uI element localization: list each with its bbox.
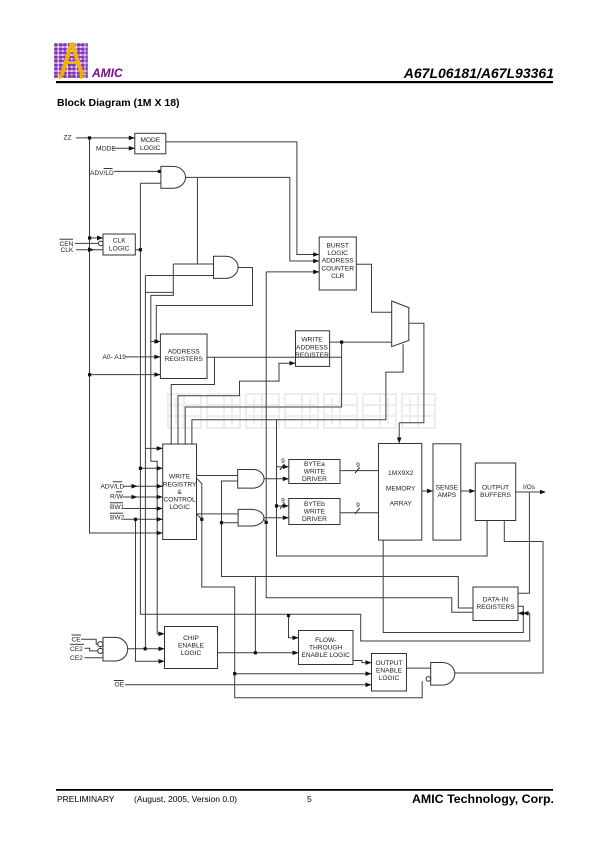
wire CE to G5 <box>81 639 98 644</box>
arrow into WRITE REGISTRY in1 <box>157 446 163 451</box>
wire branch from data line down to chip out line <box>254 577 256 653</box>
and-gate G3 bytea <box>238 470 264 489</box>
svg-text:PRELIMINARY: PRELIMINARY <box>57 794 115 804</box>
wire mux output to memory top <box>399 323 424 423</box>
wire G2 input1 horizontal <box>173 263 213 265</box>
box CLK LOGIC <box>103 234 135 255</box>
box MODE LOGIC <box>135 133 166 154</box>
junction clk wr2 <box>139 467 142 470</box>
svg-text:CE2: CE2 <box>70 646 83 653</box>
wire WRITE ADDRESS REGISTER input staircase <box>178 363 296 444</box>
svg-text:Block Diagram (1M X 18): Block Diagram (1M X 18) <box>57 97 180 109</box>
box 1MX9X2 MEMORY ARRAY <box>379 444 422 541</box>
arrow into BURST in1 <box>313 252 319 257</box>
wire A0-A19 to ADDRESS REGISTERS <box>126 356 160 358</box>
box OUTPUT ENABLE LOGIC <box>372 654 407 692</box>
svg-text:FLOW-THROUGHENABLE LOGIC: FLOW-THROUGHENABLE LOGIC <box>302 637 351 659</box>
arrow into CHIP ENABLE in2 <box>159 647 165 652</box>
arrow into FLOW-THROUGH in2 <box>293 651 299 656</box>
wire BYTEa output to memory <box>340 470 379 472</box>
arrow into ADDRESS REGISTERS in1 <box>154 339 160 344</box>
wire rail 145 branch WRITE REGISTRY input1 <box>145 447 162 449</box>
junction chip ft <box>254 651 257 654</box>
wire G2 output to BURST input3 <box>156 268 252 342</box>
wire G4 output to BYTEb input2 <box>264 517 289 519</box>
arrow into WRITE REGISTRY bw1 <box>157 506 163 511</box>
wire G5 output to CHIP ENABLE LOGIC <box>128 648 165 650</box>
svg-text:BURSTLOGICADDRESSCOUNTERCLR: BURSTLOGICADDRESSCOUNTERCLR <box>321 243 354 280</box>
arrow into CHIP ENABLE in3 <box>159 659 165 664</box>
input bubble G5 in1 <box>98 642 103 647</box>
wire ADV/LD to G1 <box>114 170 161 172</box>
arrow mid rw <box>132 495 138 500</box>
watermark <box>168 394 435 428</box>
box BURST LOGIC ADDRESS COUNTER CLR <box>319 237 356 290</box>
wire mux bottom to staircase <box>192 344 403 444</box>
wire vertical at 341.6 <box>185 342 341 444</box>
slash bytea out <box>355 467 360 473</box>
svg-text:CE: CE <box>72 637 82 644</box>
input bubble CEN <box>99 241 104 246</box>
footer rule <box>56 789 553 791</box>
junction ce out <box>144 647 147 650</box>
arrow into FLOW-THROUGH in1 <box>293 636 299 641</box>
wire ADDRESS REGISTERS output to mux input2 <box>207 356 342 358</box>
svg-text:BW2: BW2 <box>110 515 125 522</box>
arrow into MODE LOGIC mode <box>129 146 135 151</box>
box SENSE AMPS <box>433 444 461 540</box>
arrow into MODE LOGIC zz <box>129 136 135 141</box>
svg-text:5: 5 <box>307 794 312 804</box>
svg-text:A67L06181/A67L93361: A67L06181/A67L93361 <box>403 65 554 81</box>
wire IOs branch down to data-in <box>518 492 529 593</box>
arrow into BURST in2 <box>313 259 319 264</box>
junction bus byteb <box>275 504 278 507</box>
wire G4 input2 from vertical <box>222 522 239 524</box>
wire ADVLD to WRITE REGISTRY <box>124 485 163 487</box>
wire ZZ to MODE LOGIC <box>76 137 135 139</box>
wire G3 output to BYTEa input2 <box>264 478 289 480</box>
arrow IOs <box>540 490 546 495</box>
junction outen2 <box>233 672 236 675</box>
svg-text:MODELOGIC: MODELOGIC <box>140 137 161 152</box>
arrow into WRITE REGISTRY zz <box>157 531 163 536</box>
wire CLK rail to G1 input2 <box>140 182 161 184</box>
svg-text:BYTEaWRITEDRIVER: BYTEaWRITEDRIVER <box>302 461 327 483</box>
and-gate G1 ADV/LD <box>161 166 186 188</box>
svg-text:CLKLOGIC: CLKLOGIC <box>109 238 130 253</box>
wire ZZ vertical rail <box>90 138 163 533</box>
wire G4 output diagonal to vertical <box>263 519 266 523</box>
arrow into BURST in3 <box>313 270 319 275</box>
svg-text:I/Os: I/Os <box>523 484 536 491</box>
wire ZZ branch to CLK LOGIC top input <box>90 237 104 239</box>
svg-text:9: 9 <box>356 502 360 509</box>
wire to OUTPUT ENABLE input2 <box>235 673 372 675</box>
svg-text:OUTPUTBUFFERS: OUTPUTBUFFERS <box>480 485 511 500</box>
junction diag 202 <box>200 518 203 521</box>
svg-text:CLK: CLK <box>61 247 74 254</box>
junction addr in1 <box>155 340 158 343</box>
wire RW to WRITE REGISTRY <box>123 496 163 498</box>
arrow into OUTPUT ENABLE in2 <box>366 671 372 676</box>
junction zz top <box>88 136 91 139</box>
header rule <box>56 81 553 83</box>
wire BW2 branch down to chip enable <box>136 519 165 661</box>
arrow into WRITE REGISTRY advld <box>157 484 163 489</box>
and-gate G2 burst <box>214 256 239 278</box>
wire rail 145 vertical <box>144 276 146 650</box>
junction zz clk <box>88 236 91 239</box>
wire output buffers to IOs <box>516 491 542 493</box>
svg-text:ADV/LD: ADV/LD <box>90 170 114 177</box>
junction war out <box>340 341 343 344</box>
and-gate G6 output enable <box>431 663 455 686</box>
arrow into memory top <box>397 438 402 444</box>
arrow into DATA-IN right (double) <box>518 611 524 616</box>
slash byteb out <box>355 508 360 514</box>
svg-text:CE2: CE2 <box>70 655 83 662</box>
wire ADDR output branch to WRITE REGISTRY top a <box>171 357 214 444</box>
wire diagonal2 out2 to vertical <box>197 514 202 519</box>
box CHIP ENABLE LOGIC <box>165 627 218 669</box>
wire ZZ branch to ADDRESS REGISTERS input3 <box>90 374 161 376</box>
wire data bus vertical to byte drivers <box>277 420 488 556</box>
junction dot advld gate <box>158 170 161 173</box>
box FLOW-THROUGH ENABLE LOGIC <box>299 631 354 665</box>
slash bytea in <box>280 464 285 470</box>
wire BW1 to WRITE REGISTRY <box>124 508 163 510</box>
wire BYTEb output to memory <box>340 512 379 514</box>
box DATA-IN REGISTERS <box>473 587 518 621</box>
wire CE2a to G5 <box>85 648 98 651</box>
wire WRITE REGISTRY out1 to G3 <box>197 475 238 477</box>
wire CLK rail branch to WRITE REGISTRY input2 <box>140 467 162 469</box>
wire WRITE ADDRESS REGISTER output to mux input2 <box>330 341 392 343</box>
wire clk line branch to FLOW-THROUGH input1 <box>289 616 299 638</box>
mux trapezoid <box>392 301 409 347</box>
svg-text:(August, 2005, Version 0.0): (August, 2005, Version 0.0) <box>134 794 237 804</box>
wire CLK LOGIC output rail <box>135 183 140 250</box>
arrow into WRITE ADDRESS REGISTER <box>290 361 296 366</box>
svg-text:BW1: BW1 <box>110 504 125 511</box>
svg-text:1MX9X2MEMORYARRAY: 1MX9X2MEMORYARRAY <box>386 470 416 508</box>
arrow into CLK LOGIC top <box>97 236 103 241</box>
arrow into WRITE REGISTRY rw <box>157 495 163 500</box>
svg-text:9: 9 <box>281 458 285 465</box>
wire memory top entry <box>398 423 400 439</box>
wire BURST input3 from long vertical <box>266 271 319 273</box>
arrow mid advld <box>132 484 138 489</box>
arrow into ADDRESS REGISTERS in3 <box>154 372 160 377</box>
wire MODE to MODE LOGIC <box>113 147 135 149</box>
box WRITE REGISTRY & CONTROL LOGIC <box>163 444 197 540</box>
svg-text:WRITEREGISTRY&CONTROLLOGIC: WRITEREGISTRY&CONTROLLOGIC <box>163 474 197 511</box>
wire sense amps to output buffers <box>461 490 476 492</box>
nand-gate G5 chip enable input <box>103 637 128 661</box>
arrow into BYTEb in2 <box>283 515 289 520</box>
svg-text:MODE: MODE <box>96 146 116 153</box>
box BYTEb WRITE DRIVER <box>289 499 340 525</box>
arrow into SENSE AMPS <box>427 489 433 494</box>
svg-text:OE: OE <box>115 681 125 688</box>
arrow into WRITE REGISTRY in2 <box>157 466 163 471</box>
arrow into BYTEb in1 <box>283 504 289 509</box>
wire rail 145 horizontal top <box>145 291 173 293</box>
arrow mid CLK <box>88 247 94 252</box>
arrow into WRITE REGISTRY bw2 <box>157 517 163 522</box>
wire BURST output to mux input1 <box>356 264 391 312</box>
wire CE2b to G5 <box>85 657 104 659</box>
wire bus branch BYTEa input1 <box>277 466 289 468</box>
wire OUTPUT ENABLE to G6 <box>407 667 431 669</box>
arrow into CHIP ENABLE in1 <box>159 632 165 637</box>
svg-text:A0- A19: A0- A19 <box>103 354 127 361</box>
svg-text:ADDRESSREGISTERS: ADDRESSREGISTERS <box>165 349 204 364</box>
arrow into OUTPUT BUFFERS <box>469 489 475 494</box>
junction 266 <box>265 521 268 524</box>
svg-text:AMIC Technology, Corp.: AMIC Technology, Corp. <box>412 792 554 806</box>
wire MODE LOGIC output to BURST input1 <box>166 142 319 255</box>
junction bw2 rail <box>134 518 137 521</box>
wire ADDRESS REGISTERS input1 from rail <box>151 341 161 343</box>
junction zz addr <box>88 373 91 376</box>
svg-text:ZZ: ZZ <box>64 135 72 142</box>
wire CLK to CLK LOGIC <box>76 249 103 251</box>
wire G6 output to OUTPUT BUFFERS <box>455 521 543 674</box>
svg-text:9: 9 <box>356 462 360 469</box>
arrow into OUTPUT ENABLE in1 <box>366 660 372 665</box>
wire CEN to CLK LOGIC <box>75 242 99 244</box>
svg-text:R/W: R/W <box>110 493 124 500</box>
and-gate G4 byteb <box>238 509 264 526</box>
arrow into BYTEa in2 <box>283 477 289 482</box>
wire G4 output branch down <box>266 272 473 612</box>
input bubble G6 in2 <box>426 677 431 682</box>
junction clk out <box>139 248 142 251</box>
wire OE to OUTPUT ENABLE input3 <box>125 684 372 686</box>
wire G2 input1 branch down-left <box>151 264 174 634</box>
wire BW2 to WRITE REGISTRY <box>124 518 163 520</box>
arrow into OUTPUT ENABLE in3 <box>366 683 372 688</box>
svg-text:9: 9 <box>281 497 285 504</box>
svg-text:AMIC: AMIC <box>91 66 123 80</box>
wire G1 output branch down to G2 input1 <box>196 177 198 264</box>
wire CLK rail down segment <box>140 250 529 641</box>
wire branch up to G3 input2 <box>222 481 238 523</box>
input bubble G5 in2 <box>98 648 103 653</box>
svg-text:ADV/LD: ADV/LD <box>101 484 125 491</box>
svg-text:CHIPENABLELOGIC: CHIPENABLELOGIC <box>178 635 205 657</box>
wire data-in right out <box>383 540 523 632</box>
svg-text:SENSEAMPS: SENSEAMPS <box>436 485 459 500</box>
wire bus branch BYTEb input1 <box>277 505 289 507</box>
box WRITE ADDRESS REGISTER <box>296 331 330 367</box>
wire branch down to data path <box>222 523 474 608</box>
wire G1 output to BURST input2 <box>186 177 320 261</box>
wire memory to sense amps <box>422 490 433 492</box>
box BYTEa WRITE DRIVER <box>289 460 340 484</box>
junction clkline ft <box>287 614 290 617</box>
wire WRITE REGISTRY out diagonal <box>197 478 423 698</box>
junction 221 <box>220 521 223 524</box>
box OUTPUT BUFFERS <box>475 463 515 521</box>
svg-text:BYTEbWRITEDRIVER: BYTEbWRITEDRIVER <box>302 501 327 523</box>
svg-text:DATA-INREGISTERS: DATA-INREGISTERS <box>476 597 515 612</box>
slash byteb in <box>280 503 285 509</box>
box ADDRESS REGISTERS <box>160 334 207 379</box>
wire FLOW-THROUGH output to OUTPUT ENABLE <box>353 661 372 663</box>
svg-text:WRITEADDRESSREGISTER: WRITEADDRESSREGISTER <box>295 337 329 359</box>
arrow into ADDRESS REGISTERS in2 <box>154 355 160 360</box>
AMIC logo plaid square <box>54 43 88 80</box>
arrow into BYTEa in1 <box>283 465 289 470</box>
wire CHIP ENABLE output to FLOW-THROUGH <box>218 652 299 654</box>
yellow A of logo <box>62 45 83 76</box>
svg-text:OUTPUTENABLELOGIC: OUTPUTENABLELOGIC <box>375 660 402 682</box>
wire WRITE REGISTRY out2 to G4 <box>197 513 238 515</box>
wire G2 input2 <box>145 275 213 277</box>
